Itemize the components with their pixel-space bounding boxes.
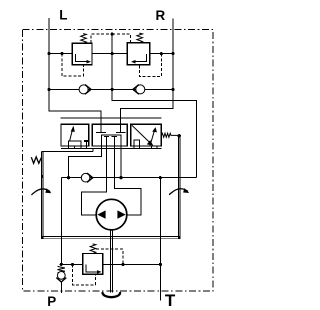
center cell inner blocked ports [104, 136, 117, 148]
wire P port stub [60, 282, 62, 293]
wire return rail [61, 177, 196, 179]
control valve left cell [61, 124, 89, 146]
relief valve bottom spring [90, 244, 96, 254]
check valve left (on cross line) [79, 85, 88, 94]
node rail hook [67, 176, 70, 179]
relief valve top-left box [72, 43, 92, 65]
control valve left spring W [31, 157, 41, 163]
control valve right spring [161, 133, 178, 137]
check valve middle (on rail) [81, 173, 90, 182]
check valve P line spring [58, 266, 65, 272]
mechanical square left mid [41, 175, 44, 178]
mechanical link right vertical [178, 137, 180, 238]
node bottom T junction [159, 263, 162, 266]
relief valve top-right bottom pilot loop [139, 54, 161, 77]
metering motor left element [97, 210, 105, 218]
wire motor right feed [114, 149, 141, 216]
control valve outer bottom line [61, 148, 162, 150]
node L relief junction [47, 52, 50, 55]
svg-text:R: R [156, 8, 166, 23]
node R check junction [171, 88, 174, 91]
mechanical steering shaft [110, 230, 112, 292]
metering motor right element [117, 210, 125, 218]
left cell channel [68, 141, 81, 146]
node rail port4 [119, 176, 122, 179]
relief valve bottom internal arrow [86, 264, 98, 272]
relief valve top-right pilot from center [112, 34, 130, 43]
wire T line [159, 178, 161, 301]
right cell arrow B [150, 131, 154, 146]
mechanical rotation arc left [32, 189, 51, 195]
wire left house line [60, 178, 62, 265]
relief valve top-right box [127, 43, 150, 65]
wire center tank line [112, 34, 196, 178]
node center relief junction [111, 52, 114, 55]
node bottom spring pilot [121, 263, 124, 266]
left cell blocked port [84, 140, 89, 142]
check valve P line ball [57, 272, 65, 280]
node left pilot tap [60, 52, 63, 55]
node right spring to link [178, 134, 181, 137]
wire bottom rail [61, 263, 160, 265]
right cell channel [134, 140, 139, 146]
mechanical link horizontal [41, 237, 179, 239]
relief valve top-left bottom pilot loop [62, 54, 84, 76]
svg-text:T: T [165, 291, 176, 310]
check valve right (on cross line) [136, 85, 145, 94]
relief valve top-right internal arrow [135, 54, 146, 62]
wire valve port to rail [120, 149, 122, 178]
center cell outer channel [101, 135, 121, 149]
metering motor circle [96, 199, 127, 230]
mechanical link left vertical [41, 151, 43, 237]
wire check valve cross line [49, 88, 173, 90]
node rail T [159, 176, 162, 179]
mechanical rotation arc right [169, 189, 188, 195]
control valve outer top line [61, 117, 162, 119]
node L check junction [47, 88, 50, 91]
relief valve bottom top pilot [96, 249, 123, 263]
relief valve bottom box [83, 254, 103, 275]
relief valve top-right spring [137, 33, 143, 43]
center cell blocked top ports [96, 124, 125, 132]
left cell arrow [70, 130, 73, 142]
wire hook from valve port to rail [69, 149, 102, 178]
wire motor left feed [82, 149, 107, 216]
relief valve top-left internal arrow [76, 54, 87, 62]
control valve right cell [131, 124, 162, 146]
left cell ticks [68, 146, 86, 149]
node bottom pilot tap [71, 263, 74, 266]
relief valve top-left pilot to center [91, 34, 112, 43]
mechanical square left bottom [41, 236, 44, 239]
relief valve top-left spring [81, 34, 87, 44]
node R relief junction [171, 52, 174, 55]
steering wheel [103, 293, 121, 297]
check valve P line seat [56, 278, 66, 282]
node bottom P junction [60, 263, 63, 266]
right cell ticks [134, 146, 157, 149]
node center pilot top [111, 33, 114, 36]
right cell arrow A [132, 125, 151, 143]
mechanical link left top connector [41, 149, 93, 152]
wire R port line [121, 19, 173, 131]
svg-text:L: L [59, 7, 67, 22]
node right pilot tap [160, 52, 163, 55]
wire relief cross line [49, 53, 173, 55]
svg-text:P: P [47, 294, 56, 309]
control valve center cell [92, 124, 127, 146]
enclosure dash-dot boundary [23, 30, 214, 291]
mechanical square right bottom [178, 236, 181, 239]
wire L port line [49, 18, 101, 131]
relief valve bottom lower pilot loop [73, 264, 96, 284]
node center check junction [111, 88, 114, 91]
